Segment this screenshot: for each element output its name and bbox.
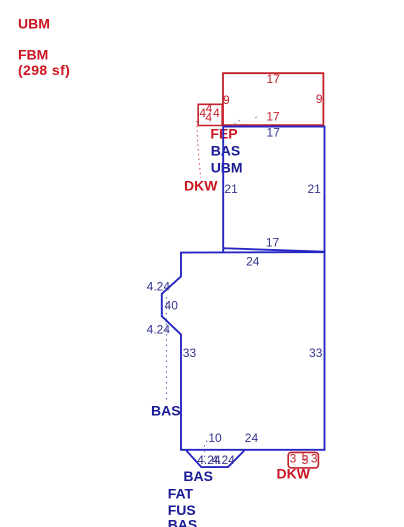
svg-text:FUS: FUS bbox=[168, 502, 196, 518]
area BAS/UBM upper outline (blue rectangle) bbox=[223, 127, 324, 253]
svg-text:21: 21 bbox=[307, 182, 321, 196]
leader dotted from trapezoid to BAS label bbox=[204, 445, 206, 467]
svg-text:17: 17 bbox=[267, 125, 281, 139]
svg-text:.10: .10 bbox=[205, 431, 222, 445]
svg-text:UBM: UBM bbox=[18, 15, 50, 31]
svg-text:24: 24 bbox=[245, 431, 259, 445]
svg-text:4.24: 4.24 bbox=[147, 279, 171, 293]
bay trapezoid bottom outline bbox=[186, 451, 244, 468]
svg-text:UBM: UBM bbox=[211, 160, 243, 176]
svg-text:DKW: DKW bbox=[277, 465, 311, 481]
svg-text:9: 9 bbox=[223, 93, 230, 107]
svg-text:3: 3 bbox=[311, 452, 318, 466]
svg-text:(298 sf): (298 sf) bbox=[18, 62, 70, 78]
svg-text:9: 9 bbox=[316, 92, 323, 106]
svg-text:DKW: DKW bbox=[184, 178, 218, 194]
area DKW bottom outline (small red rounded rect) bbox=[288, 452, 318, 468]
svg-text:BAS: BAS bbox=[211, 142, 241, 158]
svg-text:BAS: BAS bbox=[151, 402, 181, 418]
svg-text:17: 17 bbox=[267, 72, 281, 86]
area FEP outline (red rectangle) bbox=[223, 73, 323, 125]
area DKW small outline (top red rectangle) bbox=[198, 104, 222, 125]
svg-text:40: 40 bbox=[165, 299, 179, 313]
svg-text:4: 4 bbox=[213, 106, 220, 120]
svg-text:4: 4 bbox=[205, 111, 212, 125]
svg-text:33: 33 bbox=[183, 346, 197, 360]
svg-text:17: 17 bbox=[266, 235, 280, 249]
leader dotted from FEP label to FEP area bbox=[234, 117, 259, 125]
svg-text:3: 3 bbox=[290, 452, 297, 466]
area BAS lower outline (blue polygon with bay) bbox=[162, 252, 325, 450]
svg-text:24: 24 bbox=[246, 254, 260, 268]
svg-text:FBM: FBM bbox=[18, 47, 48, 63]
svg-text:17: 17 bbox=[266, 110, 280, 124]
svg-text:21: 21 bbox=[224, 182, 238, 196]
svg-text:BAS: BAS bbox=[168, 517, 198, 527]
leader dotted from bay to BAS label bbox=[165, 297, 167, 401]
svg-text:FAT: FAT bbox=[168, 485, 194, 501]
svg-text:4.24: 4.24 bbox=[212, 453, 236, 467]
svg-text:BAS: BAS bbox=[183, 468, 213, 484]
leader dotted from DKW rect to DKW label bbox=[197, 121, 201, 178]
svg-text:33: 33 bbox=[309, 346, 323, 360]
